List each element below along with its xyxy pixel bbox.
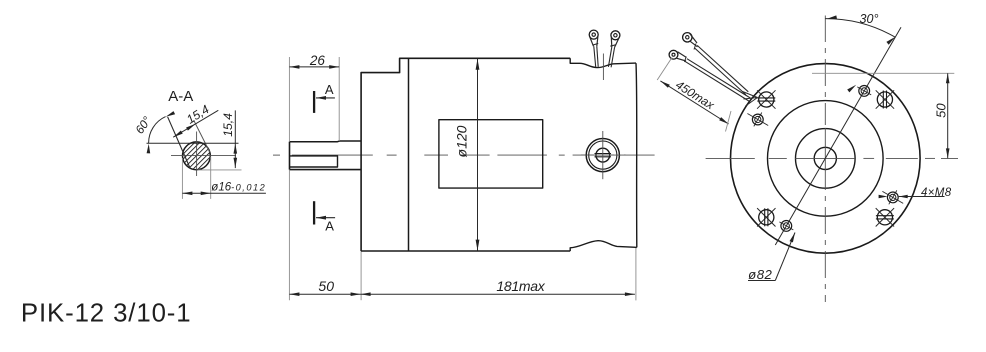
svg-text:ø82: ø82 xyxy=(748,267,772,282)
svg-text:4×M8: 4×M8 xyxy=(921,187,952,199)
svg-text:A: A xyxy=(325,219,334,234)
svg-text:26: 26 xyxy=(309,53,326,68)
svg-text:A-A: A-A xyxy=(168,88,193,105)
svg-text:PIK-12 3/10-1: PIK-12 3/10-1 xyxy=(21,300,192,328)
svg-text:15,4: 15,4 xyxy=(221,113,235,137)
svg-text:ø16-0,012: ø16-0,012 xyxy=(211,181,266,193)
svg-text:50: 50 xyxy=(318,278,334,294)
svg-text:181max: 181max xyxy=(496,278,545,294)
svg-text:ø120: ø120 xyxy=(454,125,470,157)
svg-text:A: A xyxy=(325,82,334,97)
svg-text:30°: 30° xyxy=(860,12,879,26)
svg-text:50: 50 xyxy=(934,103,949,118)
